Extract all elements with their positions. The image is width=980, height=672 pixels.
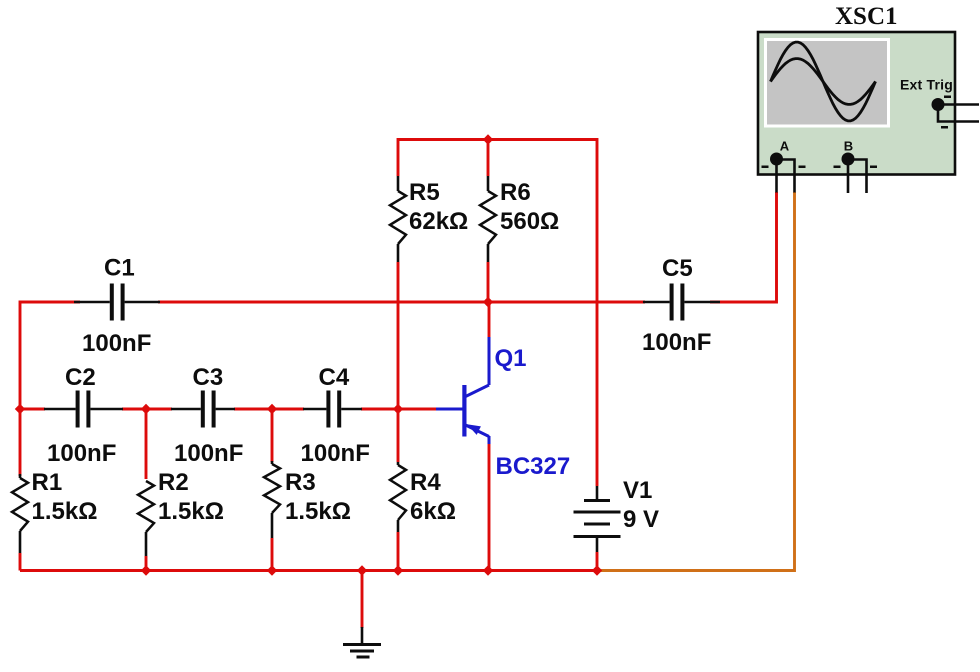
transistor Q1 BC327 [436, 337, 570, 480]
svg-text:A: A [780, 139, 790, 154]
node C3-C4 / R3 junction [267, 404, 277, 414]
svg-text:100nF: 100nF [82, 330, 151, 357]
wire base row segment 1 [20, 408, 45, 411]
svg-text:100nF: 100nF [642, 329, 711, 356]
wire bottom ground rail [20, 569, 597, 572]
resistor R2 [138, 469, 224, 556]
svg-text:R3: R3 [285, 469, 316, 496]
svg-text:62kΩ: 62kΩ [409, 208, 468, 235]
scope channel A terminal [762, 139, 806, 193]
svg-text:100nF: 100nF [301, 440, 370, 467]
node C4 / R4 / base junction [393, 404, 403, 414]
capacitor C1 [74, 255, 160, 358]
svg-text:B: B [844, 139, 853, 154]
resistor R3 [264, 461, 351, 538]
svg-text:C4: C4 [319, 364, 350, 391]
svg-text:XSC1: XSC1 [835, 3, 898, 30]
svg-text:Ext Trig: Ext Trig [900, 77, 953, 93]
battery V1 9V [574, 477, 660, 552]
resistor R5 [390, 176, 468, 262]
resistor R1 [12, 469, 97, 553]
svg-text:9 V: 9 V [623, 506, 659, 533]
wire base row segment 3 [234, 408, 304, 411]
capacitor C3 [171, 364, 243, 467]
scope waveform trace 2 [771, 59, 876, 105]
svg-text:1.5kΩ: 1.5kΩ [285, 498, 351, 525]
wire ground stub [361, 571, 364, 629]
wire R1 column [19, 409, 22, 476]
svg-text:C5: C5 [662, 255, 693, 282]
svg-text:R4: R4 [410, 469, 441, 496]
node base row / R1 junction [15, 404, 25, 414]
ground [343, 627, 381, 657]
svg-text:100nF: 100nF [174, 440, 243, 467]
svg-text:R2: R2 [158, 469, 189, 496]
svg-text:560Ω: 560Ω [500, 208, 559, 235]
wire C1 left vertical to base row [20, 302, 80, 409]
resistor R4 [390, 462, 456, 532]
svg-text:C2: C2 [65, 364, 96, 391]
svg-text:C3: C3 [193, 364, 224, 391]
node R4 ground junction [393, 565, 403, 575]
oscilloscope XSC1 body [758, 3, 955, 175]
svg-text:BC327: BC327 [496, 453, 571, 480]
wire R4 column [397, 409, 400, 462]
wire scope channel B return (orange) [597, 192, 795, 571]
wire V1 bottom lead [596, 552, 599, 571]
wire R6 top lead to supply rail [487, 140, 490, 177]
svg-text:R6: R6 [500, 179, 531, 206]
wire base row segment 2 [122, 408, 172, 411]
wire R2 column [145, 409, 148, 479]
node supply/R6 junction [483, 134, 493, 144]
wire C5 to scope channel A [710, 192, 777, 302]
svg-text:100nF: 100nF [47, 440, 116, 467]
resistor R6 [480, 176, 559, 262]
node V1 ground junction [592, 565, 602, 575]
scope waveform trace 1 [771, 42, 876, 121]
svg-text:R5: R5 [409, 179, 440, 206]
node ground stub junction [357, 565, 367, 575]
node C2-C3 / R2 junction [141, 404, 151, 414]
node collector output junction [483, 297, 493, 307]
wire top supply rail [398, 140, 597, 487]
svg-text:R1: R1 [32, 469, 63, 496]
svg-text:1.5kΩ: 1.5kΩ [32, 498, 98, 525]
svg-text:C1: C1 [104, 255, 135, 282]
wire collector to node [488, 302, 491, 338]
scope channel B terminal [834, 139, 878, 194]
node R3 ground junction [267, 565, 277, 575]
capacitor C5 [642, 255, 720, 356]
svg-text:V1: V1 [623, 477, 652, 504]
svg-text:Q1: Q1 [495, 345, 527, 372]
capacitor C2 [44, 364, 123, 467]
node emitter ground junction [483, 565, 493, 575]
wire base row segment 4 [361, 408, 436, 411]
scope Ext Trig terminal [900, 77, 979, 129]
node R2 ground junction [141, 565, 151, 575]
wire R3 column [271, 409, 274, 462]
wire emitter to bottom rail [488, 443, 491, 571]
wire R6 bottom to collector node [487, 262, 490, 302]
wire collector row C1 to C5 [158, 301, 645, 304]
svg-text:6kΩ: 6kΩ [410, 498, 456, 525]
capacitor C4 [301, 364, 370, 467]
wire R5 column (supply to base node) [397, 262, 400, 409]
svg-text:1.5kΩ: 1.5kΩ [158, 498, 224, 525]
